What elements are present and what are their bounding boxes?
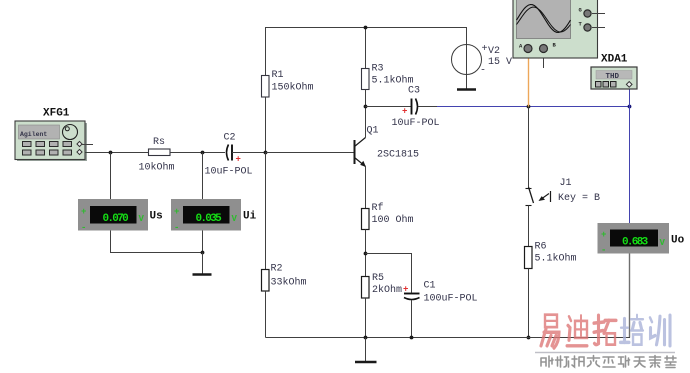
wire C1 to bottom rail bbox=[411, 300, 413, 338]
svg-text:THD: THD bbox=[606, 73, 620, 81]
svg-text:R3: R3 bbox=[372, 64, 384, 75]
wire emitter down to Rf bbox=[365, 167, 367, 209]
svg-text:R6: R6 bbox=[535, 242, 547, 253]
resistor R1 bbox=[262, 70, 314, 97]
svg-text:+: + bbox=[236, 155, 241, 165]
svg-text:R1: R1 bbox=[272, 70, 284, 81]
wire C2 to base node bbox=[232, 152, 266, 154]
svg-text:+: + bbox=[403, 285, 408, 295]
node Ui tap bbox=[201, 151, 205, 155]
svg-text:Ui: Ui bbox=[243, 211, 257, 223]
wire V2 to ground bbox=[466, 75, 468, 89]
svg-text:C1: C1 bbox=[424, 281, 436, 292]
svg-text:Uo: Uo bbox=[671, 235, 685, 247]
svg-text:-: - bbox=[174, 223, 179, 233]
svg-text:100 Ohm: 100 Ohm bbox=[372, 214, 414, 226]
wire scope A probe orange bbox=[528, 58, 530, 107]
char pei bbox=[621, 315, 644, 345]
capacitor C2 10uF-POL bbox=[205, 133, 253, 178]
watermark underline bbox=[535, 352, 675, 354]
svg-text:XDA1: XDA1 bbox=[601, 54, 628, 66]
char xun bbox=[650, 315, 670, 346]
resistor R2 bbox=[262, 264, 307, 292]
distortion analyzer XDA1 bbox=[591, 54, 637, 90]
function generator XFG1 bbox=[15, 108, 87, 162]
svg-text:10kOhm: 10kOhm bbox=[139, 162, 175, 174]
svg-text:2SC1815: 2SC1815 bbox=[377, 150, 419, 161]
char di bbox=[567, 315, 587, 346]
wire bottom rail bbox=[266, 337, 631, 339]
wire C3 right stub bbox=[418, 106, 437, 108]
wire Ui meter top lead bbox=[202, 153, 204, 200]
wire input from XFG1 bbox=[81, 152, 148, 154]
svg-text:+: + bbox=[482, 44, 488, 55]
svg-text:C2: C2 bbox=[224, 133, 236, 144]
node scope tap bbox=[527, 105, 531, 109]
wire switch to R6 bbox=[528, 206, 530, 247]
svg-text:Agilent: Agilent bbox=[20, 131, 47, 138]
svg-text:+: + bbox=[81, 207, 86, 217]
wire branch to C1 bbox=[366, 254, 412, 293]
svg-text:33kOhm: 33kOhm bbox=[271, 277, 307, 289]
wire R1 bottom to base node bbox=[265, 97, 267, 153]
node base junction bbox=[264, 151, 268, 155]
node R5 bottom bbox=[364, 336, 368, 340]
resistor Rf bbox=[362, 202, 414, 230]
switch J1 Key=B bbox=[526, 178, 601, 206]
node Rf C1 junction bbox=[364, 252, 368, 256]
svg-text:V2: V2 bbox=[488, 46, 500, 57]
svg-text:100uF-POL: 100uF-POL bbox=[424, 294, 478, 305]
svg-text:-: - bbox=[480, 66, 486, 77]
svg-text:XFG1: XFG1 bbox=[43, 108, 70, 120]
node meter ground junction bbox=[201, 251, 205, 255]
wire R2 column bbox=[265, 153, 267, 270]
node XDA1 tap bbox=[628, 105, 632, 109]
svg-text:10uF-POL: 10uF-POL bbox=[205, 167, 253, 178]
voltage source V2 15V bbox=[452, 44, 513, 77]
oscilloscope bbox=[513, 0, 598, 58]
wire to meters ground bbox=[202, 253, 204, 274]
wire R2 to bottom rail bbox=[265, 291, 267, 338]
wire R1 column top bbox=[265, 28, 267, 76]
resistor R6 bbox=[525, 242, 577, 269]
capacitor C3 10uF-POL bbox=[392, 86, 440, 130]
wire top rail bbox=[265, 27, 467, 29]
char tuo bbox=[594, 315, 616, 344]
wire J1 column bbox=[528, 107, 530, 188]
svg-text:R5: R5 bbox=[372, 273, 384, 284]
node top rail R3 junction bbox=[364, 26, 368, 30]
wire output net blue bbox=[437, 106, 630, 108]
svg-text:150kOhm: 150kOhm bbox=[272, 82, 314, 94]
svg-text:10uF-POL: 10uF-POL bbox=[392, 118, 440, 129]
svg-text:2kOhm: 2kOhm bbox=[372, 284, 402, 296]
wire Us meter top lead bbox=[110, 153, 112, 200]
voltmeter Ui bbox=[171, 199, 257, 233]
node collector C3 junction bbox=[364, 105, 368, 109]
svg-text:0.035: 0.035 bbox=[196, 213, 223, 225]
svg-text:V: V bbox=[660, 238, 666, 248]
ground main bbox=[355, 361, 377, 364]
svg-text:C3: C3 bbox=[408, 86, 420, 97]
svg-text:R2: R2 bbox=[271, 264, 283, 275]
svg-text:V: V bbox=[139, 214, 145, 224]
wire scope B stub bbox=[543, 58, 545, 68]
watermark subtitle shepin he tianxian sheji zhuanjia bbox=[541, 356, 676, 368]
watermark yidituo peixun bbox=[541, 315, 670, 348]
svg-text:Q1: Q1 bbox=[367, 126, 379, 137]
ground V2 bbox=[457, 88, 476, 91]
svg-text:15 V: 15 V bbox=[488, 57, 512, 68]
capacitor C1 100uF-POL bbox=[403, 281, 478, 305]
svg-text:+: + bbox=[601, 230, 606, 240]
wire scope G stub bbox=[592, 13, 605, 15]
wire Rf bottom to R5 bbox=[365, 230, 367, 277]
svg-text:0.070: 0.070 bbox=[103, 213, 129, 225]
resistor R3 bbox=[362, 64, 414, 90]
svg-text:-: - bbox=[601, 246, 606, 256]
wire XFG1 upper stub bbox=[82, 144, 93, 146]
voltmeter Uo bbox=[598, 223, 685, 256]
wire Ui meter bottom bbox=[202, 231, 204, 253]
wire R3 bottom to collector node bbox=[365, 90, 367, 107]
wire XDA1 lead blue bbox=[629, 89, 631, 107]
svg-text:+: + bbox=[402, 107, 407, 117]
svg-text:Key = B: Key = B bbox=[558, 193, 600, 204]
wire Us meter bottom bbox=[111, 231, 203, 253]
wire R6 to bottom rail bbox=[528, 269, 530, 338]
voltmeter Us bbox=[78, 199, 163, 233]
wire Uo meter bottom to rail bbox=[629, 253, 631, 338]
svg-text:Rs: Rs bbox=[153, 137, 165, 148]
node R6 bottom junction bbox=[527, 336, 531, 340]
resistor R5 bbox=[362, 273, 403, 298]
wire base lead bbox=[266, 152, 355, 154]
char yi bbox=[541, 315, 559, 348]
svg-text:J1: J1 bbox=[560, 178, 572, 189]
svg-text:+: + bbox=[174, 207, 179, 217]
wire collector up bbox=[365, 107, 367, 138]
wire V2 top lead bbox=[466, 28, 468, 46]
svg-text:V: V bbox=[232, 214, 238, 224]
wire R3 column top bbox=[365, 28, 367, 69]
node Us tap bbox=[109, 151, 113, 155]
wire main ground stub bbox=[365, 338, 367, 362]
svg-text:-: - bbox=[81, 223, 86, 233]
wire Rs to C2 bbox=[170, 152, 225, 154]
wire Uo column blue bbox=[629, 107, 631, 224]
resistor Rs bbox=[139, 137, 175, 174]
transistor Q1 2SC1815 bbox=[355, 126, 420, 168]
ground meters bbox=[193, 273, 212, 276]
wire scope T stub bbox=[592, 27, 605, 29]
wire collector node to C3 bbox=[366, 106, 412, 108]
svg-text:Us: Us bbox=[150, 211, 163, 223]
svg-text:0.683: 0.683 bbox=[622, 237, 649, 249]
node C1 bottom bbox=[410, 336, 414, 340]
svg-text:5.1kOhm: 5.1kOhm bbox=[535, 253, 577, 265]
wire R5 to bottom rail bbox=[365, 298, 367, 338]
svg-text:Rf: Rf bbox=[372, 202, 384, 214]
